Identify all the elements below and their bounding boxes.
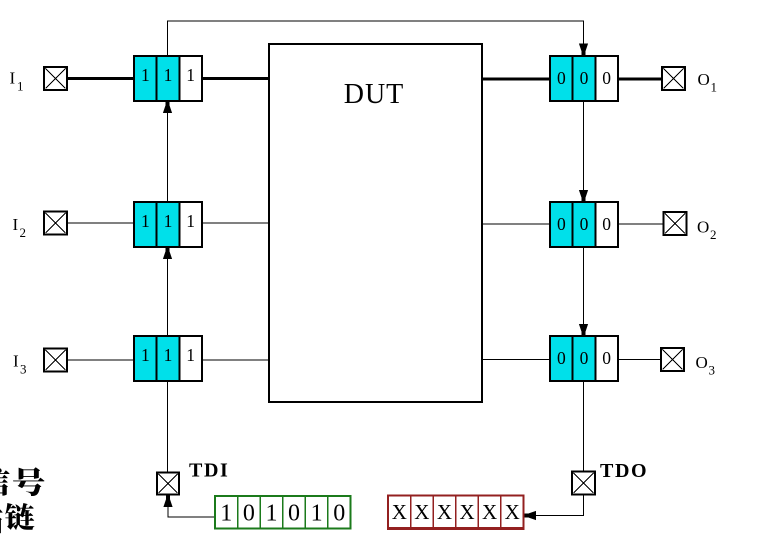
arrow into I2 register bottom [163,248,172,260]
wire from TDI stimulus register to TDI pad [168,506,216,517]
output pin O1 label [698,70,718,95]
svg-text:1: 1 [164,65,173,85]
wire register I1 to DUT (thick) [202,77,269,80]
output pad O3 (crossed box) [661,348,684,371]
wire TDI cell up to I3 register [167,381,169,473]
svg-text:0: 0 [602,68,611,88]
TDO label [600,460,648,482]
wire register O1 to pad (thick) [618,78,662,81]
wire: scan chain from left register 1 up and across the top [167,21,584,56]
wire scan chain I3 register up to I2 register [167,247,169,336]
boundary scan register cell I1 value 1 1 1 [134,56,202,101]
wire scan chain O2 register down to O3 register [583,247,585,335]
wire register O2 to pad [618,223,664,225]
svg-text:X: X [414,500,429,524]
svg-text:X: X [459,500,474,524]
svg-text:1: 1 [711,80,718,95]
svg-text:2: 2 [710,227,717,242]
wire register O3 to pad [618,359,661,361]
svg-text:TDI: TDI [189,460,229,482]
arrow into TDI pad bottom [163,496,172,508]
svg-text:1: 1 [186,211,195,231]
svg-text:2: 2 [20,225,27,240]
wire I1 pad to register (thick) [67,77,134,80]
arrow into O2 register top [579,190,588,202]
output pin O3 label [696,353,716,378]
TDI label [189,460,229,482]
svg-text:I: I [10,69,16,88]
svg-text:0: 0 [557,68,566,88]
svg-text:1: 1 [141,211,150,231]
TDI stimulus shift register value 101010 (green) [215,496,351,529]
DUT box [269,44,482,402]
input pin I2 label [13,215,27,240]
wire scan chain I2 register up to I1 register [167,101,169,202]
wire scan chain O1 register down to O2 register [583,101,585,201]
svg-text:1: 1 [265,501,277,527]
svg-text:0: 0 [243,501,255,527]
svg-text:TDO: TDO [600,460,648,482]
svg-text:1: 1 [17,79,24,94]
boundary scan register cell I2 value 1 1 1 [134,202,202,247]
svg-text:0: 0 [333,501,345,527]
svg-text:X: X [392,500,407,524]
boundary scan register cell O2 value 0 0 0 [550,202,618,247]
output pad O2 (crossed box) [664,212,687,235]
boundary scan register cell O1 value 0 0 0 [550,56,618,101]
input pad I2 (crossed box) [44,212,67,235]
svg-text:1: 1 [164,211,173,231]
output pad O1 (crossed box) [662,67,685,90]
svg-text:0: 0 [580,214,589,234]
wire register O3 down to TDO cell [583,381,585,472]
svg-text:0: 0 [288,501,300,527]
wire I2 pad to register [67,222,134,224]
input pad I1 (crossed box) [44,67,67,90]
svg-text:O: O [698,70,710,89]
svg-text:DUT: DUT [344,79,405,110]
boundary scan register cell I3 value 1 1 1 [134,336,202,381]
output pin O2 label [697,218,717,243]
arrow into I1 register bottom [163,102,172,114]
svg-text:0: 0 [602,214,611,234]
arrow into TDO response register [525,511,537,520]
svg-text:1: 1 [220,501,232,527]
svg-text:3: 3 [20,362,27,377]
input pin I3 label [13,352,27,377]
svg-text:O: O [696,353,708,372]
wire register I3 to DUT [202,359,269,361]
svg-text:0: 0 [580,348,589,368]
svg-text:1: 1 [164,345,173,365]
svg-text:X: X [505,500,520,524]
svg-text:1: 1 [141,65,150,85]
svg-text:0: 0 [580,68,589,88]
svg-text:I: I [13,215,19,234]
wire DUT to register O1 (thick) [482,78,550,81]
TDI pad (crossed box) [157,473,179,495]
caption line 1: (truncated) 测试信号 "test signal" [0,467,45,496]
TDO pad (crossed box) [572,472,595,495]
arrow into output register O1 (shift direction down) [579,44,588,56]
input pin I1 label [10,69,24,94]
svg-text:I: I [13,352,19,371]
svg-text:X: X [482,500,497,524]
svg-text:X: X [437,500,452,524]
svg-text:0: 0 [557,348,566,368]
arrow into O3 register top [579,324,588,336]
svg-text:1: 1 [311,501,323,527]
svg-text:1: 1 [186,345,195,365]
svg-text:1: 1 [186,65,195,85]
caption line 2: (truncated) 扫描链 "scan chain" [0,503,35,534]
input pad I3 (crossed box) [44,348,67,371]
wire DUT to register O3 [482,359,550,361]
wire DUT to register O2 [482,223,550,225]
wire I3 pad to register [67,359,134,361]
svg-text:3: 3 [709,363,716,378]
wire register I2 to DUT [202,222,269,224]
TDO response shift register value XXXXXX (dark red) [387,496,525,531]
svg-text:0: 0 [602,348,611,368]
wire TDO pad down and left to response register [535,495,584,516]
svg-text:O: O [697,218,709,237]
boundary scan register cell O3 value 0 0 0 [550,336,618,381]
svg-text:0: 0 [557,214,566,234]
svg-text:1: 1 [141,345,150,365]
